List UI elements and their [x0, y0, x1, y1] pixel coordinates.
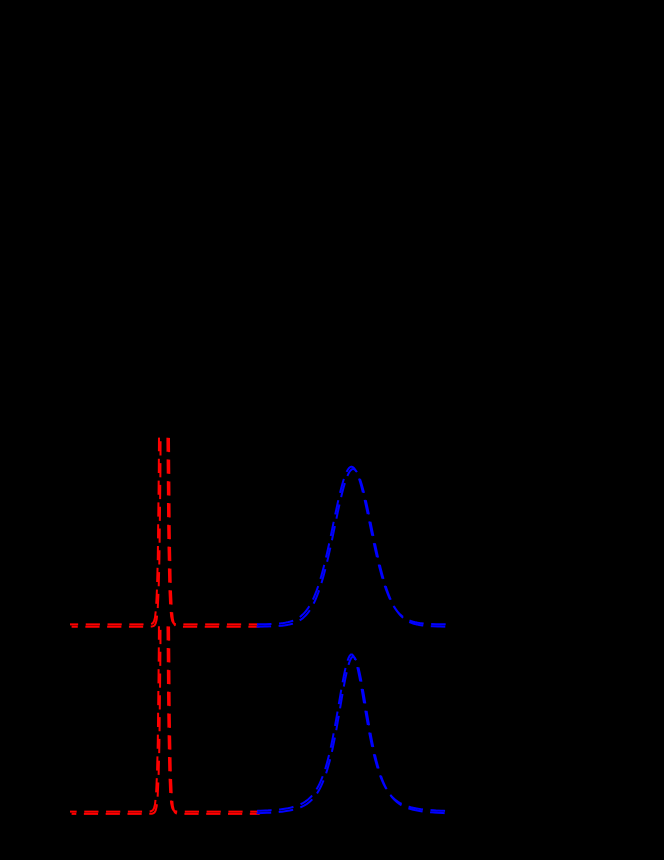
- bottom panel red narrow resonance peak (dashed doubled curve, clipped at panel top): [70, 0, 260, 814]
- top panel blue broad peak (dashed doubled curve): [251, 467, 450, 627]
- bottom panel blue broad peak (dashed doubled curve): [251, 655, 450, 814]
- top panel red narrow resonance peak (dashed doubled curve, clipped at panel top): [70, 0, 260, 627]
